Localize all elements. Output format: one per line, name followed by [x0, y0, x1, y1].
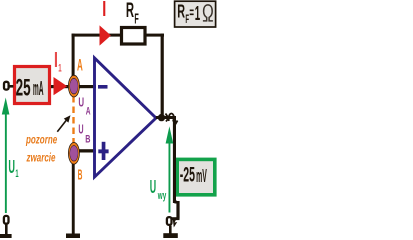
svg-text:mV: mV [196, 166, 207, 186]
svg-text:25: 25 [16, 75, 31, 102]
svg-text:wy: wy [157, 190, 166, 202]
svg-text:zwarcie: zwarcie [26, 150, 56, 164]
svg-text:A: A [77, 56, 83, 75]
svg-text:F: F [134, 11, 138, 27]
svg-text:B: B [78, 168, 83, 184]
svg-text:U: U [150, 176, 156, 197]
svg-text:=: = [189, 5, 194, 22]
svg-text:1: 1 [195, 3, 200, 25]
svg-text:mA: mA [33, 78, 44, 100]
svg-text:1: 1 [58, 62, 61, 74]
svg-text:U: U [8, 156, 15, 177]
svg-text:B: B [85, 134, 90, 146]
svg-text:pozorne: pozorne [25, 132, 57, 146]
svg-text:U: U [78, 95, 84, 110]
svg-text:1: 1 [15, 168, 18, 180]
svg-text:R: R [177, 2, 185, 22]
svg-text:A: A [86, 106, 91, 118]
svg-text:-25: -25 [180, 163, 195, 187]
svg-text:U: U [78, 122, 83, 137]
svg-text:R: R [126, 0, 134, 22]
